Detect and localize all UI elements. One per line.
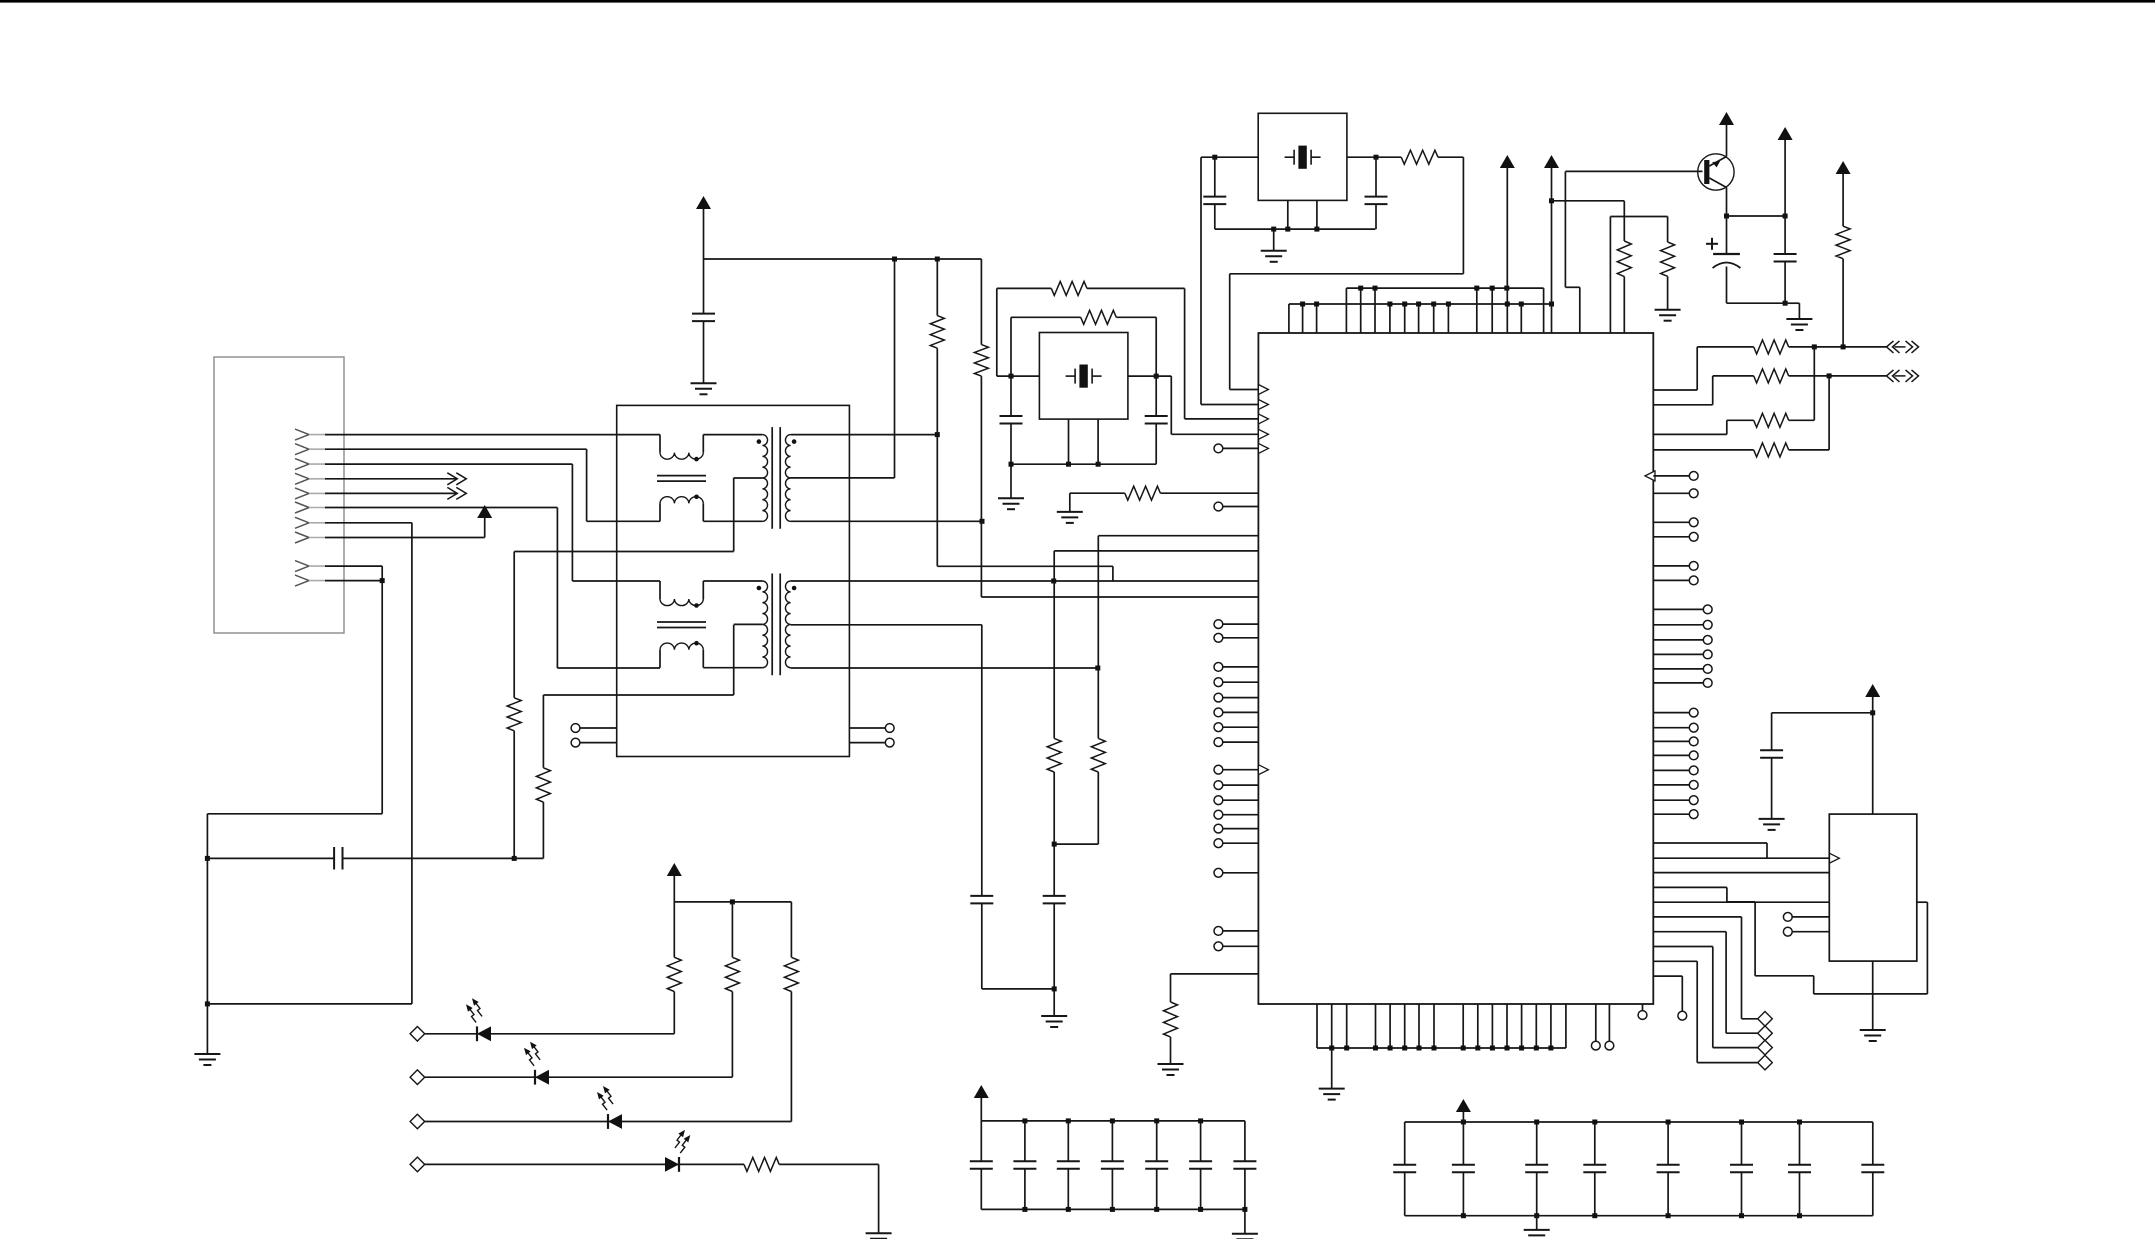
- resistor Rr1: [1754, 340, 1789, 354]
- resistor Rled1: [667, 957, 681, 991]
- junction bank bot 2: [1066, 1207, 1071, 1212]
- junction bbus 1390: [1388, 1046, 1393, 1051]
- capacitor bank C7: [1233, 1121, 1256, 1210]
- junction rail B 1405: [1402, 302, 1407, 307]
- ground R osc3: [1057, 512, 1083, 523]
- wire U2 vcc: [1872, 697, 1874, 814]
- IC U1 clock arrow pin: [1258, 765, 1268, 775]
- IC bottom nc2: [1605, 1004, 1614, 1050]
- junction bank bot 3: [1592, 1213, 1597, 1218]
- wire Q1 collector: [1726, 124, 1728, 157]
- connector J1: [214, 357, 344, 633]
- power arrow LED: [667, 863, 682, 876]
- junction bbus 1332: [1329, 1046, 1334, 1051]
- wire Rd down: [1842, 259, 1844, 347]
- IC U1 left arrow pin 2: [1258, 400, 1268, 410]
- wire LED arrow stem: [673, 876, 675, 902]
- resistor Rb: [1661, 242, 1675, 276]
- IC top pin A1346: [1345, 288, 1347, 333]
- LED D4: [665, 1130, 690, 1172]
- junction bbus 1419: [1417, 1046, 1422, 1051]
- IC U1 right nc pin b2: [1653, 620, 1712, 629]
- junction Y2 rail a: [1066, 462, 1071, 467]
- wire Y2 right node: [1128, 376, 1259, 434]
- IC U1 left nc pin 17: [1214, 927, 1258, 936]
- ground U2 cap: [1759, 819, 1785, 830]
- junction bank bot 6: [1797, 1213, 1802, 1218]
- junction bbus 1492: [1490, 1046, 1495, 1051]
- IC U1 left nc pin 7: [1214, 708, 1258, 717]
- IC U1 right nc pin 11: [1653, 766, 1698, 775]
- IC U1 left nc pin 15: [1214, 839, 1258, 848]
- bus chevron A: [447, 473, 466, 485]
- wire LED4: [425, 1163, 744, 1165]
- resistor R osc3: [1125, 486, 1161, 500]
- wire Rr3 left: [1653, 420, 1753, 434]
- IC top pin A1492: [1491, 288, 1493, 333]
- capacitor chain1054: [1043, 896, 1066, 904]
- capacitor bank C5: [1145, 1121, 1168, 1210]
- capacitor bank C6: [1189, 1121, 1212, 1210]
- wire arrow VB stem: [1551, 168, 1553, 304]
- wire R pullup1 down: [937, 348, 1113, 581]
- IC U1 left pin circle448: [1214, 444, 1258, 453]
- IC U1 left nc pin 13: [1214, 810, 1258, 819]
- IC U1 left nc pin 8: [1214, 723, 1258, 732]
- wire Y1 left: [1201, 156, 1258, 158]
- wire VD stem: [1842, 174, 1844, 226]
- IC top pin B1303: [1302, 304, 1304, 333]
- wire T1 sec bottom: [791, 520, 982, 522]
- capacitor bank C1: [970, 1121, 993, 1210]
- IC bottom pin 2: [1331, 1004, 1333, 1048]
- capacitor bank C4: [1101, 1121, 1124, 1210]
- cap bank top rail: [981, 1120, 1245, 1122]
- IC bottom pin 15: [1550, 1004, 1552, 1048]
- top border bar: [0, 0, 2155, 3]
- wire bbus gnd stem: [1331, 1048, 1333, 1089]
- junction bank bot 1: [1461, 1213, 1466, 1218]
- power arrow U2: [1865, 684, 1880, 697]
- wire LED3: [425, 1121, 792, 1123]
- wire Rr1 right: [1789, 346, 1887, 348]
- junction bbus 1405: [1402, 1046, 1407, 1051]
- junction bank top 1: [1022, 1118, 1027, 1123]
- wire Ra down: [1623, 277, 1625, 334]
- wire Rr4 right: [1789, 376, 1829, 450]
- LED supply rail: [674, 901, 791, 903]
- junction led rail: [730, 899, 735, 904]
- junction rail B 1448: [1446, 302, 1451, 307]
- wire stair b: [1653, 872, 1829, 874]
- wire diamond4: [1653, 961, 1757, 1062]
- wire coupling cap right: [343, 857, 515, 859]
- resistor R osc1: [1051, 281, 1087, 295]
- junction bank bot 4: [1666, 1213, 1671, 1218]
- wire Rled1 top: [673, 902, 675, 957]
- wire T2 sec bottom: [791, 667, 1098, 669]
- wire T2 term left A: [580, 727, 617, 729]
- diamond LED1: [410, 1027, 425, 1042]
- wire R ct1 down: [513, 731, 515, 859]
- resistor pullup2: [974, 345, 988, 376]
- junction U2 vcc: [1870, 710, 1875, 715]
- wire sense R: [1171, 974, 1259, 1002]
- IC U1 right nc pin 5: [1653, 562, 1698, 571]
- transformer T2: [657, 574, 796, 676]
- junction VA railB: [1505, 302, 1510, 307]
- terminal circle left A: [571, 724, 580, 733]
- wire LED2: [425, 1076, 733, 1078]
- IC top pin B1390: [1389, 304, 1391, 333]
- junction bank top 2: [1066, 1118, 1071, 1123]
- U2 nc pin1: [1783, 913, 1829, 922]
- IC top pin B1448: [1447, 304, 1449, 333]
- IC bottom pin 11: [1491, 1004, 1493, 1048]
- IC top pin B1317: [1316, 304, 1318, 333]
- IC U1 left nc pin 1: [1214, 502, 1258, 511]
- diamond conn 4: [1758, 1055, 1773, 1070]
- junction rail A 1507: [1504, 286, 1509, 291]
- capacitor bank C3: [1525, 1122, 1548, 1216]
- capacitor bank C3: [1057, 1121, 1080, 1210]
- wire stair c: [1653, 901, 1829, 903]
- junction bbus 1434: [1432, 1046, 1437, 1051]
- junction Y1 left: [1212, 155, 1217, 160]
- junction bank top 6: [1797, 1120, 1802, 1125]
- wire chain1054 low: [1053, 903, 1055, 1016]
- wire Rr4 left: [1653, 449, 1753, 451]
- junction bank bot 5: [1198, 1207, 1203, 1212]
- junction bbus 1536: [1534, 1046, 1539, 1051]
- junction pin7 node: [205, 1001, 210, 1006]
- wire Y2 left node: [997, 375, 1040, 377]
- junction chain1054 low: [1052, 986, 1057, 991]
- IC U1 right nc pin 9: [1653, 737, 1698, 746]
- IC U1 right out arrow: [1645, 471, 1655, 481]
- IC U1 right nc pin 13: [1653, 796, 1698, 805]
- terminal circle right A: [885, 724, 894, 733]
- wire pin8 VCC: [325, 518, 485, 538]
- wire U2 cap rail: [1772, 712, 1873, 714]
- IC bottom pin 3: [1346, 1004, 1348, 1048]
- power arrow bank: [974, 1085, 989, 1098]
- wire pin7: [325, 523, 412, 1004]
- wire T2 sec ct: [791, 625, 982, 896]
- capacitor Y1 left: [1203, 157, 1226, 229]
- wire T1 sec top: [791, 434, 938, 436]
- capacitor bank C5: [1657, 1122, 1680, 1216]
- wire pin7 to column: [207, 1003, 412, 1005]
- junction sec2 top: [1051, 579, 1056, 584]
- ground IC bottom: [1319, 1089, 1345, 1100]
- crystal Y1 box: [1258, 113, 1347, 200]
- LED D3: [597, 1086, 622, 1129]
- IC U1 left nc pin 16: [1214, 868, 1258, 877]
- wire T2 term left B: [580, 742, 617, 744]
- wire R pullup2: [980, 259, 982, 345]
- IC U1 right nc pin 6: [1653, 576, 1698, 585]
- wire chain1054 mid: [1053, 772, 1055, 896]
- resistor Rr4: [1754, 443, 1789, 457]
- wire pin5 bus stub: [325, 492, 456, 494]
- junction Y2 right: [1154, 374, 1159, 379]
- wire diamond2: [1653, 932, 1757, 1033]
- wire T2 term right A: [849, 727, 885, 729]
- wire Y2 gnd stem: [1010, 464, 1012, 498]
- resistor chain1098: [1091, 738, 1105, 772]
- IC U1 left arrow pin 5: [1258, 443, 1268, 453]
- junction bank bot 4: [1154, 1207, 1159, 1212]
- capacitor Y1 right: [1365, 157, 1388, 229]
- coupling capacitor: [334, 847, 342, 870]
- power arrow bank: [1456, 1099, 1471, 1112]
- junction rail B 1390: [1387, 302, 1392, 307]
- IC U1 left nc pin 6: [1214, 693, 1258, 702]
- capacitor bank C2: [1452, 1122, 1475, 1216]
- wire VB to Ra: [1552, 201, 1625, 241]
- junction cap node: [205, 856, 210, 861]
- junction bank bot 5: [1739, 1213, 1744, 1218]
- IC bottom pin 12: [1506, 1004, 1508, 1048]
- capacitor Y2 left: [1000, 376, 1023, 464]
- junction pin9-10: [380, 578, 385, 583]
- IC bottom pin 5: [1389, 1004, 1391, 1048]
- capacitor bank C2: [1013, 1121, 1036, 1210]
- wire jog gnd: [1785, 303, 1799, 319]
- resistor R sense: [1164, 1002, 1178, 1037]
- IC bottom pin 8: [1433, 1004, 1435, 1048]
- junction ct1 node: [512, 856, 517, 861]
- IC U1 left nc pin 10: [1214, 765, 1258, 774]
- wire base: [1565, 170, 1702, 172]
- wire arrow stem: [703, 209, 705, 259]
- IC U1 right nc pin b1: [1653, 605, 1712, 614]
- ground chain1054: [1041, 1016, 1067, 1027]
- resistor R xtal1: [1401, 150, 1438, 164]
- resistor Rr2: [1754, 369, 1789, 383]
- Y1 box stub a: [1287, 200, 1289, 229]
- wire nc stub: [1653, 976, 1682, 1011]
- wire U2 gnd: [1872, 961, 1874, 1030]
- junction rail A 1492: [1490, 286, 1495, 291]
- diamond conn 1: [1758, 1012, 1773, 1027]
- emitter rail: [1727, 215, 1786, 217]
- Y1 box stub b: [1316, 200, 1318, 229]
- ground bank2: [1524, 1230, 1550, 1241]
- resistor chain1054: [1047, 738, 1061, 772]
- capacitor U2: [1760, 713, 1783, 819]
- wire pin3: [325, 464, 660, 581]
- resistor Ra: [1617, 241, 1631, 277]
- IC bottom pin 16: [1565, 1004, 1567, 1048]
- junction Y2 rail left: [1009, 462, 1014, 467]
- power arrow pin8: [477, 505, 492, 518]
- IC U1 left nc pin 11: [1214, 781, 1258, 790]
- ground Q1 caps: [1786, 319, 1812, 330]
- junction bank top 5: [1198, 1118, 1203, 1123]
- IC top pin B1521: [1520, 304, 1522, 333]
- diamond conn 3: [1758, 1040, 1773, 1055]
- junction bbus 1522: [1519, 1046, 1524, 1051]
- junction bbus 1551: [1548, 1046, 1553, 1051]
- IC U1 left nc pin 12: [1214, 796, 1258, 805]
- capacitor CE polarized: [1713, 216, 1741, 303]
- IC top pin A1477: [1476, 288, 1478, 333]
- IC U1 right nc pin 12: [1653, 781, 1698, 790]
- IC U1 left arrow pin 4: [1258, 429, 1268, 439]
- IC U1 left nc pin 5: [1214, 678, 1258, 687]
- capacitor bank C1: [1393, 1122, 1416, 1216]
- ground R sense: [1158, 1064, 1184, 1075]
- junction e2: [1783, 214, 1788, 219]
- wire pin4 bus stub: [325, 478, 456, 480]
- IC U1 body: [1258, 333, 1653, 1004]
- U2 clock arrow: [1829, 853, 1839, 863]
- IC U1 left nc pin 14: [1214, 824, 1258, 833]
- IC bottom pin 13: [1521, 1004, 1523, 1048]
- IC top pin B1434: [1433, 304, 1435, 333]
- junction rail A 1375: [1373, 286, 1378, 291]
- IC top rail A: [1346, 287, 1543, 289]
- crystal Y2 box: [1039, 333, 1128, 420]
- wire T2 center tap: [543, 625, 733, 768]
- wire U2 loop: [1653, 887, 1927, 994]
- wire T2 term right B: [849, 742, 885, 744]
- ground column wire: [206, 814, 208, 1054]
- resistor Rled4: [744, 1157, 779, 1171]
- IC U1 right nc pin b5: [1653, 665, 1712, 674]
- junction e1: [1724, 214, 1729, 219]
- wire stair a1: [1653, 843, 1767, 858]
- transistor Q1: [1698, 154, 1734, 190]
- junction Y1 rail a: [1271, 227, 1276, 232]
- wire Rb top: [1667, 217, 1669, 243]
- Y1 ground rail: [1215, 228, 1376, 230]
- IC bottom ground bus: [1317, 1047, 1566, 1049]
- LED D1: [466, 998, 491, 1041]
- wire Rled2 top: [731, 902, 733, 957]
- capacitor bank C4: [1583, 1122, 1606, 1216]
- junction bank top 2: [1534, 1120, 1539, 1125]
- IC U1 left nc pin 3: [1214, 633, 1258, 642]
- power arrow VE: [1778, 127, 1793, 140]
- capacitor bank C7: [1788, 1122, 1811, 1216]
- junction Y2 left: [1009, 374, 1014, 379]
- ground Y1: [1261, 251, 1287, 262]
- junction bank top 3: [1110, 1118, 1115, 1123]
- junction bbus 1463: [1461, 1046, 1466, 1051]
- wire chain bridge: [1054, 843, 1098, 845]
- rail Rb: [1610, 217, 1667, 334]
- IC top pin A1544: [1543, 288, 1545, 333]
- junction rail B 1317: [1314, 302, 1319, 307]
- wire bank arrow stem: [1462, 1112, 1464, 1122]
- IC U1 right nc pin 3: [1653, 518, 1698, 527]
- IC U1 left nc pin 9: [1214, 738, 1258, 747]
- IC bottom pin 6: [1404, 1004, 1406, 1048]
- junction bbus 1347: [1344, 1046, 1349, 1051]
- IC U1 right nc pin b4: [1653, 650, 1712, 659]
- power arrow VA: [1500, 155, 1515, 168]
- IC U1 right nc pin 7: [1653, 708, 1698, 717]
- junction sec1 bottom: [980, 519, 985, 524]
- junction bank top 4: [1154, 1118, 1159, 1123]
- wire stair a2: [1653, 857, 1829, 859]
- capacitor bank C6: [1730, 1122, 1753, 1216]
- wire bank2 gnd: [1536, 1216, 1538, 1230]
- IC bottom nc1: [1591, 1004, 1600, 1050]
- junction rail R1: [935, 257, 940, 262]
- junction bank top 1: [1461, 1120, 1466, 1125]
- wire Rr3 right: [1789, 347, 1815, 420]
- ground Y2: [998, 498, 1024, 509]
- Y2 box stub b: [1097, 419, 1099, 464]
- capacitor Y2 right: [1145, 376, 1168, 464]
- wire Rled3 top: [790, 902, 792, 957]
- junction rail B 1303: [1300, 302, 1305, 307]
- wire VE stem: [1784, 140, 1786, 216]
- resistor pullup1: [930, 316, 944, 349]
- IC U1 right nc pin 10: [1653, 751, 1698, 760]
- wire R pullup2 down: [981, 376, 1258, 597]
- resistor R ct1: [507, 698, 521, 731]
- IC bottom pin 4: [1375, 1004, 1377, 1048]
- crystal Y2 symbol: [1066, 365, 1102, 388]
- junction Y1 right: [1374, 155, 1379, 160]
- junction rail A 1361: [1358, 286, 1363, 291]
- resistor R ct2: [536, 768, 550, 802]
- IC top pin B1405: [1404, 304, 1406, 333]
- junction Y2 rail b: [1096, 462, 1101, 467]
- wire bank arrow stem: [980, 1098, 982, 1121]
- wire T1 center tap: [514, 478, 734, 698]
- capacitor sec2ct: [970, 896, 993, 904]
- junction rail B 1521: [1519, 302, 1524, 307]
- bus chevron B: [447, 487, 466, 499]
- U2 nc pin2: [1783, 927, 1829, 936]
- IC U1 right nc pin 4: [1653, 532, 1698, 541]
- junction Y1 rail c: [1314, 227, 1319, 232]
- junction chain1054: [1052, 842, 1057, 847]
- IC bottom pin 9: [1462, 1004, 1464, 1048]
- wire diamond1: [1653, 917, 1757, 1019]
- wire chain1098: [1098, 536, 1258, 739]
- junction bbus 1376: [1373, 1046, 1378, 1051]
- ground cap top: [691, 383, 717, 394]
- wire Rr1 left: [1653, 347, 1753, 390]
- power rail top: [704, 258, 982, 260]
- junction bank1 gnd: [1242, 1207, 1247, 1212]
- LED D2: [524, 1042, 549, 1085]
- junction r1b: [1841, 344, 1846, 349]
- IC U1 right nc pin 14: [1653, 810, 1698, 819]
- IC top pin B1419: [1418, 304, 1420, 333]
- IC bottom nc3: [1638, 1004, 1647, 1019]
- crystal Y1 symbol: [1285, 146, 1321, 169]
- wire Y1 right: [1347, 156, 1401, 158]
- wire T2 sec top to IC: [791, 580, 1259, 582]
- wire R pullup1: [936, 259, 938, 316]
- power arrow Q1: [1719, 112, 1734, 125]
- power arrow VB: [1544, 155, 1559, 168]
- junction rail ct: [892, 257, 897, 262]
- IC top pin A1375: [1374, 288, 1376, 333]
- IC top pin B1552: [1551, 304, 1553, 333]
- IC U1 right nc pin 8: [1653, 723, 1698, 732]
- IC bottom pin 14: [1535, 1004, 1537, 1048]
- IC bottom pin 10: [1477, 1004, 1479, 1048]
